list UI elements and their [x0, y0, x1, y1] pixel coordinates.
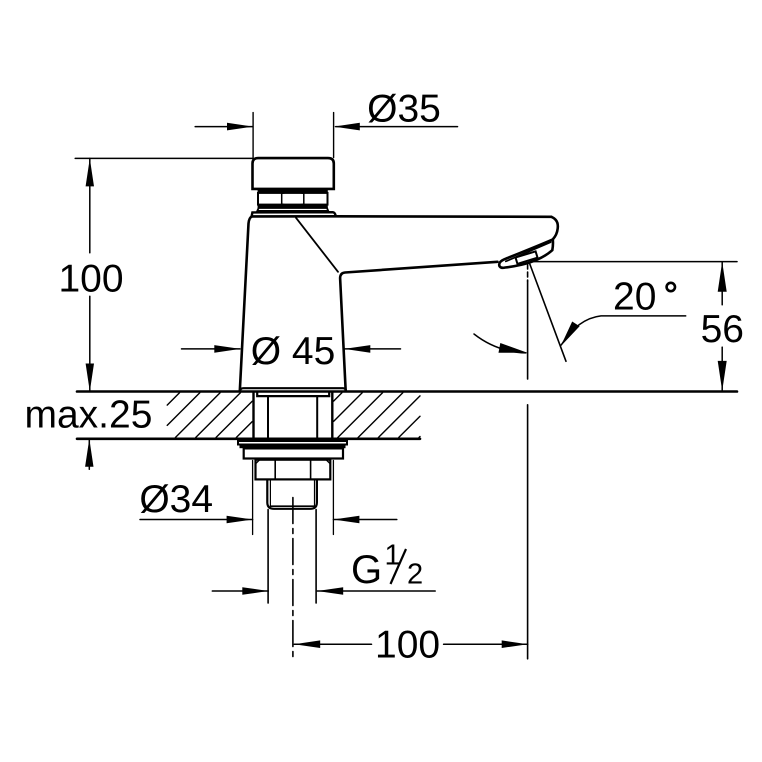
arrow 56 up	[718, 262, 727, 292]
counter bottom line	[77, 437, 420, 440]
cap shadow band	[258, 188, 328, 193]
stream axis upper dashes	[527, 264, 529, 281]
svg-text:2: 2	[407, 559, 423, 591]
arrow Ø34 left	[227, 516, 253, 524]
svg-text:56: 56	[701, 308, 744, 351]
arrow max25 up	[85, 439, 93, 467]
spout underside and body right edge	[340, 262, 497, 391]
swivel arc	[474, 334, 526, 353]
arrow Ø35 right	[334, 123, 360, 131]
base edge on counter	[240, 388, 346, 391]
body flange top	[252, 212, 336, 216]
svg-text:G: G	[351, 548, 382, 592]
degree circle	[667, 283, 675, 291]
spout tip curve	[551, 217, 558, 239]
arrow 100 bottom	[86, 364, 94, 392]
flange bottom / spout top line	[252, 215, 552, 218]
thread section	[267, 480, 317, 508]
aerator outlet insert	[516, 251, 538, 263]
arrow swivel arc	[499, 343, 528, 353]
aerator inner top line	[506, 242, 551, 261]
stream axis lower	[527, 405, 529, 659]
hex nut facet right	[303, 193, 305, 204]
svg-text:20: 20	[613, 276, 656, 319]
arrow 20 deg leader	[561, 322, 580, 347]
arrow Ø35 left	[227, 123, 253, 131]
hex nut facet left	[281, 193, 283, 204]
hex nut barrel arcs	[282, 192, 304, 206]
shank thread lines in counter	[267, 396, 269, 439]
body left edge	[240, 217, 252, 392]
lock nut facets	[274, 460, 276, 479]
hole edge right	[331, 392, 333, 439]
arrow 100 top	[86, 158, 94, 186]
shank shoulder plate under counter	[257, 392, 329, 396]
hole edge left	[252, 392, 254, 439]
arrow 100 bottom left	[294, 640, 320, 648]
dim Ø34 extension lines	[252, 461, 254, 535]
arrow 56 down	[718, 361, 727, 391]
dim 100 left line	[89, 158, 91, 252]
lock nut	[256, 460, 331, 480]
aerator housing	[499, 239, 553, 267]
stream axis upper solid	[527, 281, 529, 379]
body crease line	[296, 218, 338, 272]
svg-text:Ø 45: Ø 45	[251, 330, 336, 373]
fraction slash	[391, 549, 407, 584]
washer plate 2	[244, 448, 343, 458]
56 top reference line	[531, 261, 737, 263]
dim Ø35 lines	[195, 126, 252, 128]
counter top line	[77, 390, 737, 393]
dim G half lines	[212, 590, 268, 592]
20 deg leader line	[561, 316, 686, 345]
svg-text:Ø34: Ø34	[139, 478, 213, 521]
washer plate 1	[238, 441, 347, 445]
hex nut upper	[258, 193, 328, 205]
centre axis dash-dot	[292, 498, 294, 661]
cap (top knob)	[253, 158, 334, 189]
arrow G half right	[317, 587, 343, 595]
arrow 100 bottom right	[502, 640, 528, 648]
hatching left block	[167, 393, 252, 438]
arrow Ø34 right	[333, 516, 359, 524]
dim 56 line	[721, 262, 723, 305]
dim 100 left reference line	[75, 157, 252, 159]
20 deg slant line	[530, 264, 566, 361]
dim Ø35 extension lines	[252, 113, 254, 158]
dim 100 bottom line	[294, 643, 371, 645]
nut bottom band	[258, 204, 328, 208]
arrow Ø45 right	[344, 345, 370, 353]
svg-text:max.25: max.25	[25, 394, 153, 437]
nut skirt	[257, 208, 328, 211]
svg-text:100: 100	[58, 258, 123, 301]
arrow G half left	[242, 587, 268, 595]
tailpiece tube	[267, 510, 269, 604]
dim max25 lower arrow tail	[88, 439, 90, 470]
dim Ø45 lines	[182, 348, 241, 350]
svg-text:100: 100	[375, 624, 440, 667]
arrow Ø45 left	[214, 345, 240, 353]
dim Ø34 lines	[140, 519, 253, 521]
hatching right block	[334, 393, 420, 438]
svg-text:Ø35: Ø35	[367, 88, 441, 131]
washer gasket (thick)	[240, 445, 346, 449]
